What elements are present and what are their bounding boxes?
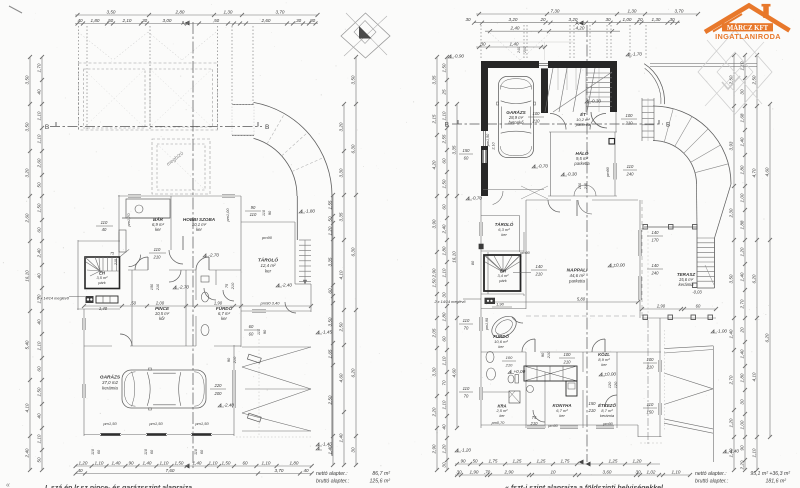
svg-text:1,40: 1,40 (99, 306, 108, 311)
svg-text:3,50: 3,50 (107, 9, 116, 14)
svg-text:2,50: 2,50 (327, 395, 332, 405)
svg-text:1,20: 1,20 (79, 460, 88, 465)
svg-text:200: 200 (214, 391, 223, 396)
svg-text:3,50: 3,50 (728, 274, 733, 283)
svg-text:210: 210 (584, 182, 588, 190)
svg-text:2,60: 2,60 (24, 213, 29, 223)
svg-text:,30: ,30 (141, 18, 148, 23)
svg-text:1,80: 1,80 (739, 165, 744, 174)
svg-text:1,20: 1,20 (441, 444, 446, 453)
svg-text:220: 220 (214, 383, 223, 388)
svg-text:,70: ,70 (484, 469, 491, 474)
svg-text:2,40: 2,40 (36, 248, 41, 258)
svg-text:60: 60 (36, 366, 41, 372)
svg-text:5,80: 5,80 (577, 297, 586, 302)
svg-text:4,60: 4,60 (338, 373, 343, 382)
svg-text:100: 100 (647, 357, 655, 362)
svg-text:1,80: 1,80 (441, 312, 446, 321)
svg-text:150: 150 (647, 410, 655, 415)
svg-text:20: 20 (636, 17, 643, 22)
svg-text:240: 240 (651, 271, 660, 276)
svg-text:110: 110 (647, 402, 654, 407)
svg-text:6,20: 6,20 (350, 368, 355, 377)
svg-text:40: 40 (77, 468, 83, 473)
svg-text:3,5 m²: 3,5 m² (97, 275, 109, 280)
svg-text:7,30: 7,30 (551, 8, 560, 13)
svg-text:2,50: 2,50 (338, 322, 343, 332)
svg-text:parketta: parketta (575, 122, 591, 127)
svg-text:40: 40 (36, 273, 41, 279)
svg-text:-1,80: -1,80 (305, 209, 316, 214)
svg-text:40: 40 (303, 468, 309, 473)
svg-text:4,70: 4,70 (751, 168, 756, 177)
svg-text:30: 30 (441, 292, 446, 298)
svg-text:INGATLANIRODA: INGATLANIRODA (715, 32, 781, 41)
svg-text:1,55: 1,55 (327, 200, 332, 209)
svg-text:3,20: 3,20 (509, 17, 518, 22)
svg-text:1,50: 1,50 (222, 460, 231, 465)
svg-text:betonkő: betonkő (508, 120, 524, 125)
svg-text:1,50: 1,50 (431, 278, 436, 287)
svg-text:1,80: 1,80 (739, 373, 744, 382)
svg-text:1,75: 1,75 (489, 458, 498, 463)
svg-text:3,20: 3,20 (24, 168, 29, 177)
svg-text:1,30: 1,30 (628, 8, 637, 13)
svg-text:210: 210 (232, 356, 237, 364)
svg-text:KRA: KRA (497, 403, 506, 408)
svg-text:30: 30 (635, 469, 641, 474)
svg-text:60: 60 (249, 324, 254, 329)
svg-text:pm1,70: pm1,70 (126, 213, 131, 228)
svg-text:,50: ,50 (107, 18, 114, 23)
svg-text:60: 60 (696, 304, 701, 309)
svg-text:4,20: 4,20 (576, 26, 585, 31)
svg-text:párk: párk (498, 279, 508, 283)
svg-text:140: 140 (652, 230, 660, 235)
svg-text:60: 60 (441, 158, 446, 164)
svg-text:100: 100 (533, 111, 541, 116)
svg-text:4,20: 4,20 (431, 160, 436, 169)
svg-text:nettó alapter.:: nettó alapter.: (695, 471, 727, 477)
svg-text:3,50: 3,50 (24, 122, 29, 131)
svg-text:1,50: 1,50 (36, 203, 41, 212)
svg-text:1,25: 1,25 (537, 458, 546, 463)
svg-text:,50: ,50 (130, 301, 136, 306)
svg-text:-2,70: -2,70 (209, 253, 220, 258)
svg-text:210: 210 (532, 119, 541, 124)
svg-text:140: 140 (536, 264, 544, 269)
svg-text:1,25: 1,25 (513, 458, 522, 463)
svg-text:30: 30 (605, 17, 611, 22)
svg-text:210: 210 (646, 365, 655, 370)
svg-text:6,30: 6,30 (350, 247, 355, 256)
svg-text:1,80: 1,80 (290, 460, 299, 465)
svg-text:210: 210 (588, 408, 597, 413)
svg-text:1,10: 1,10 (36, 434, 41, 443)
svg-text:MÁRCZ KFT: MÁRCZ KFT (727, 24, 769, 32)
svg-text:6,20: 6,20 (764, 333, 769, 342)
svg-text:44,6 m²: 44,6 m² (570, 273, 585, 278)
svg-text:210: 210 (546, 351, 551, 359)
svg-text:60: 60 (327, 288, 332, 294)
svg-text:210: 210 (530, 421, 539, 426)
svg-text:120: 120 (613, 381, 618, 388)
svg-text:210: 210 (114, 259, 118, 266)
svg-text:4,60: 4,60 (451, 368, 456, 377)
svg-text:4,10: 4,10 (24, 403, 29, 412)
svg-text:90: 90 (460, 458, 466, 463)
svg-text:1,02: 1,02 (647, 469, 656, 474)
svg-text:1,10: 1,10 (36, 111, 41, 120)
svg-text:-0,03: -0,03 (692, 290, 702, 295)
svg-text:60: 60 (441, 336, 446, 342)
svg-text:30: 30 (350, 447, 355, 453)
svg-text:ker: ker (601, 362, 607, 367)
svg-text:75: 75 (532, 415, 537, 420)
svg-text:90: 90 (128, 460, 134, 465)
svg-text:210: 210 (625, 121, 634, 126)
svg-text:ker: ker (498, 344, 504, 349)
svg-text:150: 150 (150, 283, 154, 290)
svg-text:ker: ker (559, 413, 565, 418)
svg-text:110: 110 (463, 318, 470, 323)
svg-text:1,10: 1,10 (95, 460, 104, 465)
svg-text:4,60: 4,60 (764, 167, 769, 176)
svg-text:3,50: 3,50 (327, 317, 332, 326)
svg-text:1,80: 1,80 (441, 246, 446, 255)
svg-text:60: 60 (36, 227, 41, 233)
svg-text:,30: ,30 (295, 18, 302, 23)
svg-text:GARÁZS: GARÁZS (506, 109, 526, 115)
svg-text:90: 90 (251, 205, 256, 210)
svg-text:ker: ker (155, 227, 161, 232)
svg-text:1,00: 1,00 (739, 420, 744, 429)
svg-text:,80: ,80 (309, 18, 316, 23)
svg-text:B: B (45, 124, 49, 131)
svg-text:30: 30 (465, 17, 471, 22)
svg-text:-0,70: -0,70 (538, 164, 549, 169)
svg-text:2,20: 2,20 (431, 407, 436, 417)
svg-text:170: 170 (652, 238, 660, 243)
svg-text:1,10: 1,10 (262, 460, 271, 465)
svg-text:pm90: pm90 (547, 424, 558, 428)
svg-text:110: 110 (261, 209, 266, 216)
svg-text:1,10: 1,10 (36, 341, 41, 350)
svg-text:-1,20: -1,20 (461, 448, 472, 453)
svg-text:2,15: 2,15 (431, 114, 436, 124)
svg-text:2,30: 2,30 (728, 208, 733, 218)
svg-text:100: 100 (564, 352, 572, 357)
svg-text:+0,00: +0,00 (514, 369, 526, 374)
svg-text:pm0,70: pm0,70 (491, 421, 506, 425)
svg-text:30: 30 (739, 399, 744, 405)
svg-text:pm1,50: pm1,50 (486, 133, 490, 147)
svg-text:pm1,50: pm1,50 (194, 421, 209, 426)
svg-text:60: 60 (249, 332, 254, 337)
svg-text:5,40: 5,40 (24, 340, 29, 349)
svg-text:1,10: 1,10 (160, 460, 169, 465)
svg-text:1,90: 1,90 (214, 301, 223, 306)
svg-text:2,80: 2,80 (175, 9, 185, 14)
svg-text:110: 110 (463, 386, 470, 391)
svg-text:pm90: pm90 (261, 235, 273, 240)
svg-text:1,10: 1,10 (441, 111, 446, 120)
svg-text:120: 120 (607, 381, 612, 388)
svg-text:30: 30 (739, 89, 744, 95)
svg-text:210: 210 (523, 47, 527, 54)
svg-text:210: 210 (230, 282, 235, 290)
svg-text:1,20: 1,20 (739, 247, 744, 256)
svg-text:pm1,90: pm1,90 (485, 318, 489, 331)
svg-text:-1,00: -1,00 (717, 329, 728, 334)
svg-text:1,50: 1,50 (175, 460, 184, 465)
svg-text:1,10: 1,10 (36, 134, 41, 143)
svg-text:-1,70: -1,70 (632, 52, 643, 57)
svg-text:110: 110 (91, 448, 95, 455)
svg-text:ker: ker (265, 269, 272, 274)
svg-text:16,10: 16,10 (451, 251, 456, 263)
svg-text:210: 210 (535, 272, 544, 277)
svg-text:110: 110 (101, 220, 108, 225)
svg-text:ker: ker (501, 232, 507, 237)
svg-text:ker: ker (499, 414, 505, 418)
svg-text:kerámia: kerámia (600, 413, 615, 418)
svg-text:ÉH: ÉH (99, 270, 106, 275)
svg-text:3,70: 3,70 (275, 468, 284, 473)
svg-text:110: 110 (627, 164, 634, 169)
svg-text:2,20: 2,20 (739, 460, 744, 470)
svg-text:1,90: 1,90 (496, 302, 505, 307)
svg-text:60: 60 (441, 204, 446, 210)
svg-text:210: 210 (505, 363, 513, 368)
svg-text:100: 100 (626, 113, 634, 118)
svg-text:1,68: 1,68 (739, 113, 744, 122)
svg-text:-2,40: -2,40 (224, 403, 235, 408)
svg-text:-2,70: -2,70 (179, 285, 190, 290)
svg-text:3,70: 3,70 (675, 8, 684, 13)
svg-text:3,90: 3,90 (431, 219, 436, 228)
svg-text:1,20: 1,20 (633, 458, 642, 463)
svg-text:70: 70 (441, 380, 446, 386)
svg-text:3,35: 3,35 (431, 75, 436, 84)
svg-text:ÉH: ÉH (500, 268, 507, 273)
svg-text:1,70: 1,70 (36, 63, 41, 72)
svg-text:40: 40 (441, 424, 446, 430)
svg-text:60: 60 (242, 460, 248, 465)
svg-text:100: 100 (578, 182, 582, 189)
svg-text:3,30: 3,30 (338, 168, 343, 177)
svg-text:3,4 m²: 3,4 m² (498, 273, 510, 278)
svg-text:4,10: 4,10 (338, 270, 343, 279)
svg-text:1,40: 1,40 (112, 460, 121, 465)
svg-text:1,30: 1,30 (652, 17, 661, 22)
svg-text:50: 50 (327, 216, 332, 222)
svg-text:50: 50 (472, 458, 478, 463)
svg-text:3,93: 3,93 (728, 141, 733, 150)
svg-text:181,6 m²: 181,6 m² (766, 479, 787, 485)
svg-text:2,90: 2,90 (431, 444, 436, 454)
svg-text:pm90 3,40: pm90 3,40 (260, 301, 281, 306)
svg-text:1,40: 1,40 (510, 41, 519, 46)
svg-text:6,20: 6,20 (751, 274, 756, 283)
svg-text:110: 110 (256, 328, 261, 335)
svg-text:1,20: 1,20 (728, 418, 733, 427)
svg-text:2 x 14/14 meglévő: 2 x 14/14 meglévő (36, 296, 70, 301)
svg-text:1,30: 1,30 (224, 9, 233, 14)
svg-text:1,25: 1,25 (609, 458, 618, 463)
svg-text:1,50: 1,50 (441, 63, 446, 72)
svg-text:3,35: 3,35 (451, 145, 456, 154)
svg-text:1,10: 1,10 (751, 448, 756, 457)
svg-text:150: 150 (589, 401, 597, 406)
svg-text:1,10: 1,10 (441, 356, 446, 365)
svg-text:1,40: 1,40 (193, 460, 202, 465)
svg-text:-1,45: -1,45 (322, 330, 333, 335)
svg-text:1,80: 1,80 (91, 18, 100, 23)
svg-text:3,70: 3,70 (276, 9, 285, 14)
svg-text:37,0 m2: 37,0 m2 (102, 380, 118, 385)
svg-text:1,40: 1,40 (739, 137, 744, 146)
svg-text:1,40: 1,40 (739, 272, 744, 281)
svg-text:pm1,50: pm1,50 (148, 421, 163, 426)
svg-text:40: 40 (77, 18, 83, 23)
svg-text:2,60: 2,60 (36, 158, 41, 168)
svg-text:2,40: 2,40 (24, 448, 29, 458)
svg-text:2,90: 2,90 (656, 304, 666, 309)
svg-text:-0,30: -0,30 (591, 99, 602, 104)
svg-text:40: 40 (36, 319, 41, 325)
svg-text:2,60: 2,60 (261, 18, 271, 23)
svg-text:1,40: 1,40 (143, 460, 152, 465)
svg-text:parketta: parketta (573, 161, 590, 166)
svg-text:pm1,00: pm1,00 (225, 208, 230, 223)
svg-text:ker: ker (196, 227, 202, 232)
svg-text:150: 150 (463, 148, 471, 153)
svg-text:2,50: 2,50 (751, 75, 756, 85)
svg-text:25: 25 (441, 89, 446, 96)
svg-text:240: 240 (626, 172, 635, 177)
svg-text:,50: ,50 (213, 18, 220, 23)
svg-text:86,7 m²: 86,7 m² (372, 471, 390, 477)
svg-text:2,90: 2,90 (431, 268, 436, 278)
svg-text:3,50: 3,50 (24, 75, 29, 84)
svg-text:-0,90: -0,90 (454, 54, 465, 59)
svg-text:parketta: parketta (568, 279, 585, 284)
svg-text:75: 75 (110, 252, 114, 256)
svg-text:1,00: 1,00 (623, 17, 632, 22)
svg-text:3,50: 3,50 (350, 75, 355, 84)
svg-text:6,30: 6,30 (350, 144, 355, 153)
svg-text:10: 10 (550, 469, 556, 474)
svg-text:30: 30 (456, 469, 462, 474)
svg-text:2,5 m²: 2,5 m² (496, 408, 509, 413)
svg-text:B: B (265, 124, 269, 131)
svg-text:110: 110 (250, 212, 257, 217)
svg-text:3,00: 3,00 (163, 18, 172, 23)
svg-text:1,50: 1,50 (36, 387, 41, 396)
svg-text:16,10: 16,10 (24, 270, 29, 282)
svg-text:2,00: 2,00 (155, 301, 165, 306)
svg-text:-2,40: -2,40 (282, 283, 293, 288)
svg-text:bruttó alapter.:: bruttó alapter.: (695, 479, 729, 485)
svg-text:HÁLÓ: HÁLÓ (575, 150, 588, 156)
svg-text:1,40: 1,40 (739, 349, 744, 358)
svg-text:1,10: 1,10 (672, 469, 681, 474)
svg-text:nettó alapter.:: nettó alapter.: (316, 471, 348, 477)
svg-text:1,00: 1,00 (739, 193, 744, 202)
svg-text:40: 40 (102, 227, 107, 232)
svg-text:-1,40: -1,40 (322, 442, 333, 447)
svg-text:pm90: pm90 (606, 166, 610, 177)
svg-text:7,60: 7,60 (166, 468, 175, 473)
svg-text:pm90: pm90 (602, 422, 613, 426)
svg-text:90: 90 (739, 445, 744, 451)
svg-text:2,40: 2,40 (441, 224, 446, 234)
svg-text:60: 60 (464, 156, 469, 161)
svg-text:3,35: 3,35 (338, 212, 343, 221)
svg-text:110: 110 (144, 448, 148, 455)
svg-text:70: 70 (464, 326, 469, 331)
svg-text:pm1,50: pm1,50 (102, 421, 117, 426)
svg-text:1,75: 1,75 (561, 458, 570, 463)
svg-text:3,60: 3,60 (603, 469, 612, 474)
svg-text:2,70: 2,70 (728, 375, 733, 385)
svg-text:3,20: 3,20 (569, 17, 578, 22)
svg-text:pm90: pm90 (519, 251, 530, 255)
svg-text:210: 210 (563, 360, 572, 365)
svg-text:2,10: 2,10 (492, 141, 496, 150)
svg-text:30: 30 (669, 17, 675, 22)
svg-text:2,40: 2,40 (510, 26, 520, 31)
svg-text:70: 70 (464, 394, 469, 399)
svg-text:1,10: 1,10 (441, 268, 446, 277)
svg-text:100: 100 (506, 355, 513, 360)
svg-text:3,35: 3,35 (327, 257, 332, 266)
svg-text:2,90: 2,90 (504, 469, 514, 474)
svg-text:1,20: 1,20 (327, 226, 332, 235)
svg-text:140: 140 (652, 263, 660, 268)
svg-text:240: 240 (517, 47, 521, 54)
svg-text:1,50: 1,50 (441, 179, 446, 188)
svg-text:ker: ker (221, 316, 227, 321)
svg-text:4,10: 4,10 (751, 372, 756, 381)
svg-text:125,6 m²: 125,6 m² (370, 479, 391, 485)
svg-text:30: 30 (441, 462, 446, 468)
svg-text:1,90: 1,90 (470, 469, 479, 474)
svg-text:-0,70: -0,70 (472, 196, 483, 201)
svg-text:210: 210 (156, 283, 160, 291)
svg-text:1,10: 1,10 (441, 400, 446, 409)
svg-text:50: 50 (36, 182, 41, 188)
svg-text:2 x 14/14 meglévő: 2 x 14/14 meglévő (433, 300, 466, 304)
svg-text:2,05: 2,05 (431, 328, 436, 338)
svg-text:kőr: kőr (159, 316, 165, 321)
svg-text:1,88: 1,88 (739, 220, 744, 229)
svg-text:kerámia: kerámia (102, 386, 118, 391)
svg-text:-0,30: -0,30 (567, 172, 578, 177)
svg-text:2,55: 2,55 (441, 134, 446, 144)
svg-text:1,40: 1,40 (728, 329, 733, 338)
svg-text:BÁR: BÁR (153, 216, 164, 222)
svg-text:kerámia: kerámia (678, 282, 694, 287)
svg-text:110: 110 (154, 247, 161, 252)
svg-text:210: 210 (153, 255, 162, 260)
svg-text:110: 110 (194, 448, 198, 455)
svg-text:40: 40 (36, 413, 41, 419)
svg-text:1,40: 1,40 (338, 433, 343, 442)
svg-text:40: 40 (36, 89, 41, 95)
svg-text:20: 20 (539, 17, 546, 22)
